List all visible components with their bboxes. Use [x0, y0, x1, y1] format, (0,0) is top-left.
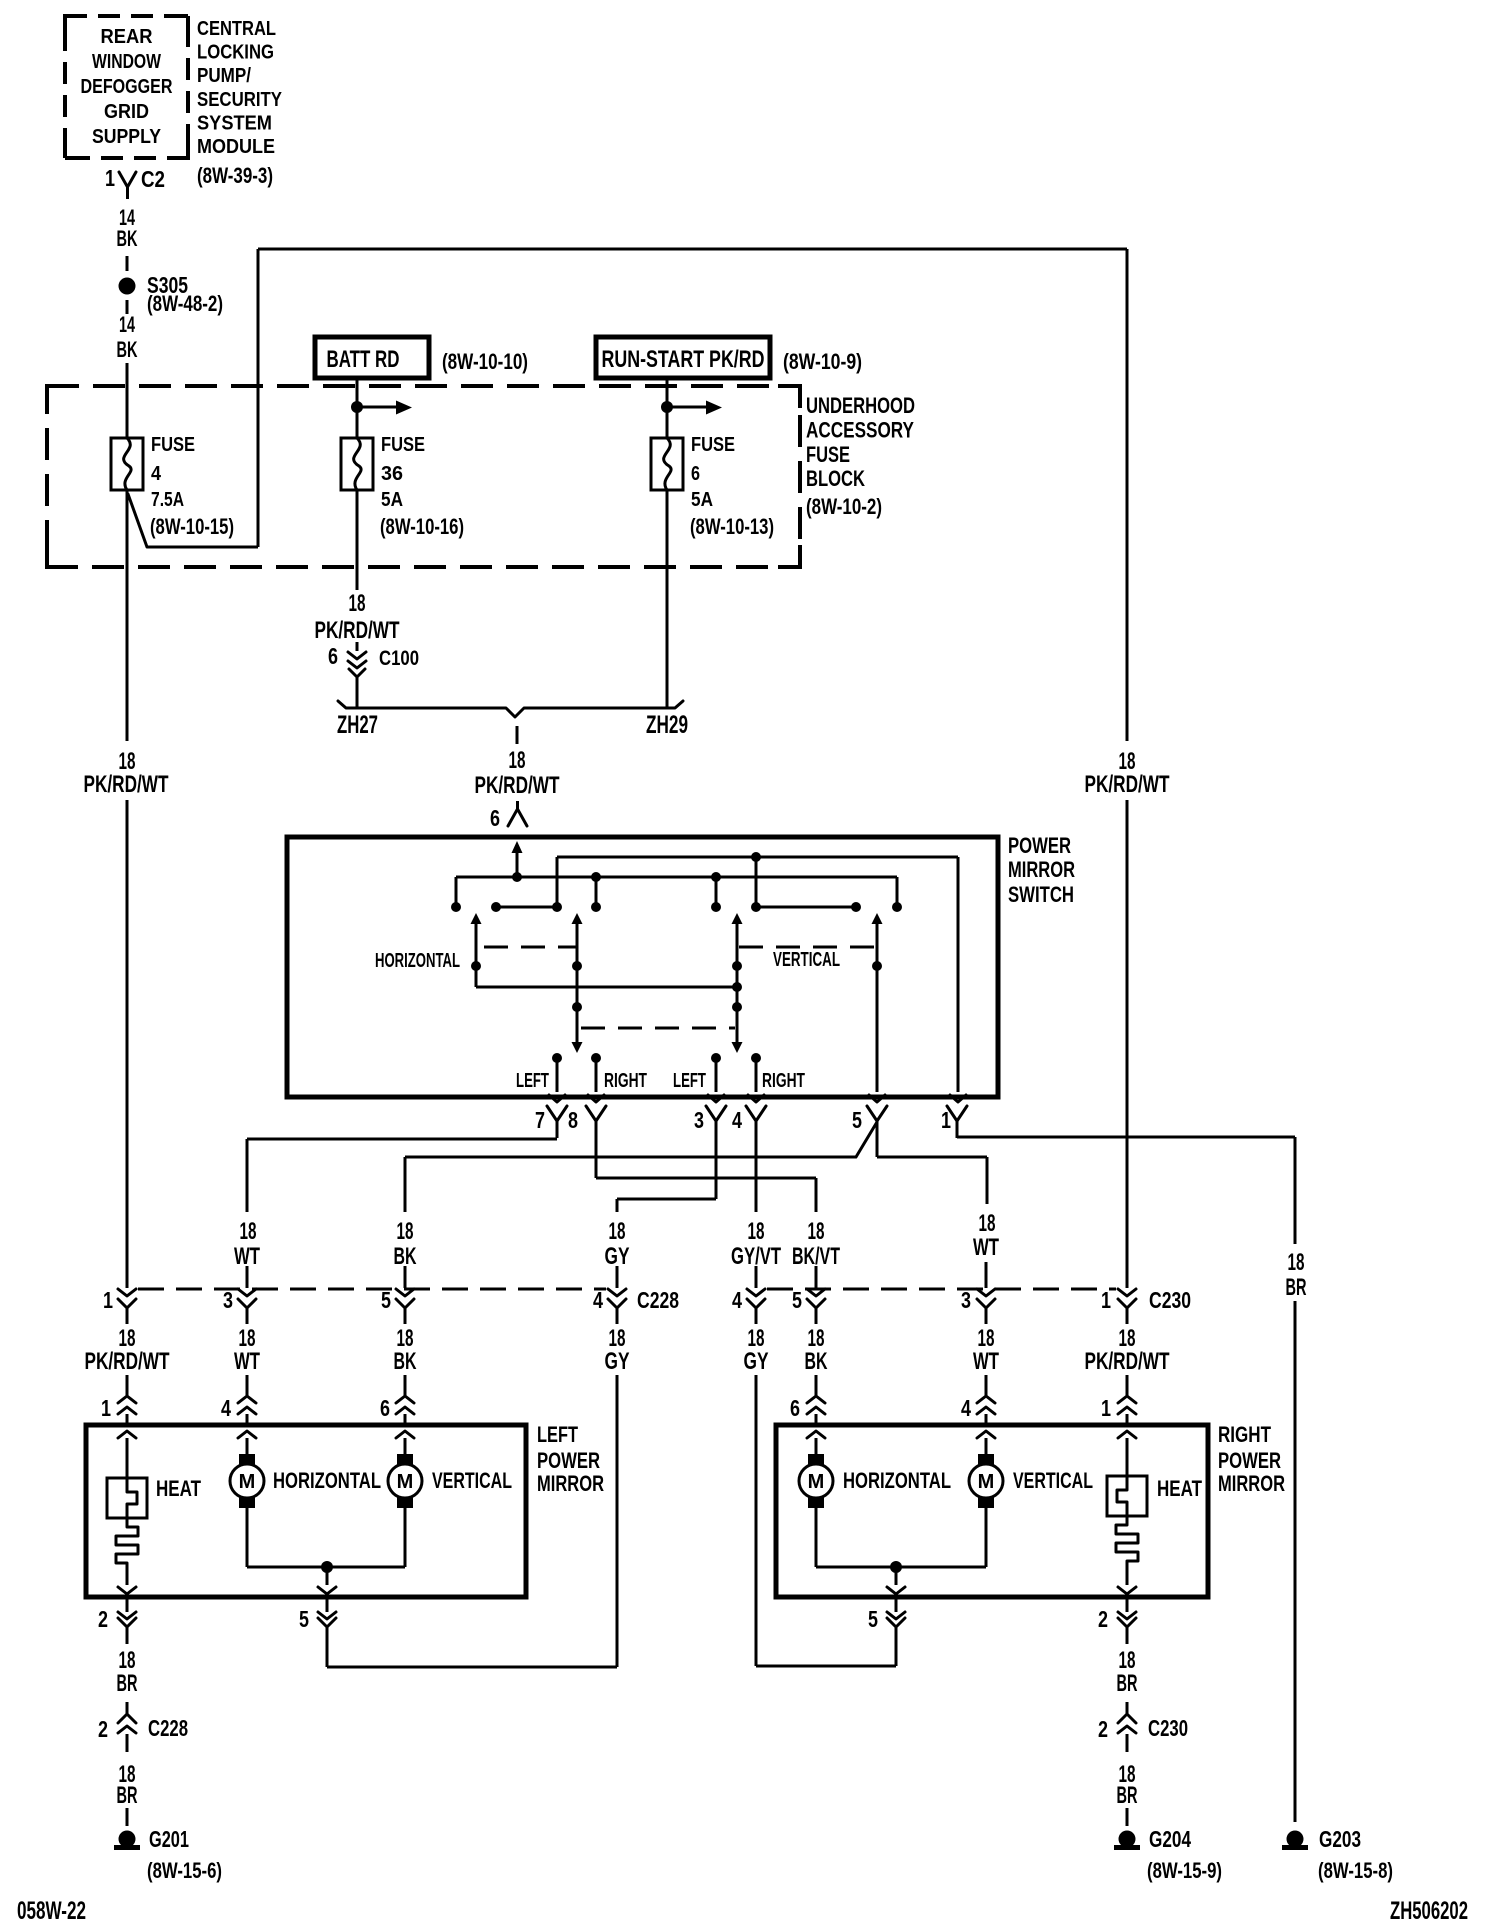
svg-text:PK/RD/WT: PK/RD/WT	[475, 772, 560, 799]
svg-text:5: 5	[852, 1107, 862, 1133]
svg-text:BK: BK	[117, 337, 138, 362]
svg-text:GY: GY	[605, 1243, 630, 1270]
svg-text:M: M	[808, 1471, 825, 1493]
svg-text:(8W-39-3): (8W-39-3)	[197, 163, 273, 188]
svg-text:5A: 5A	[381, 489, 403, 511]
svg-text:MIRROR: MIRROR	[1008, 857, 1075, 882]
svg-text:2: 2	[1098, 1606, 1108, 1632]
svg-text:FUSE: FUSE	[381, 434, 425, 456]
svg-text:18: 18	[748, 1218, 765, 1245]
svg-text:BK/VT: BK/VT	[792, 1243, 840, 1270]
svg-text:PK/RD/WT: PK/RD/WT	[1085, 1348, 1170, 1375]
svg-text:1: 1	[1101, 1395, 1111, 1421]
svg-text:SYSTEM: SYSTEM	[197, 112, 272, 134]
svg-text:GY/VT: GY/VT	[731, 1243, 781, 1270]
svg-text:18: 18	[609, 1218, 626, 1245]
svg-text:BK: BK	[805, 1348, 828, 1375]
svg-text:2: 2	[98, 1606, 108, 1632]
svg-text:4: 4	[961, 1395, 971, 1421]
svg-text:18: 18	[349, 590, 366, 617]
svg-text:(8W-10-13): (8W-10-13)	[690, 514, 774, 539]
svg-text:18: 18	[397, 1218, 414, 1245]
svg-text:ZH27: ZH27	[337, 711, 378, 739]
svg-text:6: 6	[790, 1395, 800, 1421]
svg-text:GY: GY	[605, 1348, 630, 1375]
svg-text:(8W-15-8): (8W-15-8)	[1318, 1858, 1393, 1883]
svg-text:WT: WT	[973, 1348, 999, 1375]
svg-text:1: 1	[103, 1287, 113, 1313]
svg-text:BR: BR	[117, 1782, 138, 1809]
svg-text:(8W-10-2): (8W-10-2)	[806, 494, 882, 519]
svg-text:BR: BR	[1117, 1670, 1138, 1697]
svg-text:BK: BK	[394, 1348, 417, 1375]
svg-text:WT: WT	[973, 1234, 999, 1261]
svg-text:CENTRAL: CENTRAL	[197, 18, 276, 40]
svg-text:18: 18	[808, 1218, 825, 1245]
svg-text:C228: C228	[148, 1715, 188, 1741]
svg-text:4: 4	[732, 1107, 742, 1133]
svg-text:(8W-10-10): (8W-10-10)	[442, 349, 528, 374]
svg-text:LOCKING: LOCKING	[197, 42, 274, 64]
svg-text:POWER: POWER	[1218, 1448, 1281, 1473]
svg-text:RIGHT: RIGHT	[1218, 1422, 1271, 1447]
svg-text:5: 5	[381, 1287, 391, 1313]
svg-text:36: 36	[381, 463, 403, 485]
svg-text:C230: C230	[1148, 1715, 1188, 1741]
svg-text:VERTICAL: VERTICAL	[432, 1468, 512, 1493]
svg-text:DEFOGGER: DEFOGGER	[81, 76, 173, 98]
svg-text:PK/RD/WT: PK/RD/WT	[84, 771, 169, 798]
svg-text:PK/RD/WT: PK/RD/WT	[85, 1348, 170, 1375]
svg-text:WT: WT	[234, 1243, 260, 1270]
svg-text:HORIZONTAL: HORIZONTAL	[273, 1468, 381, 1493]
svg-text:PK/RD/WT: PK/RD/WT	[1085, 771, 1170, 798]
svg-text:M: M	[397, 1471, 414, 1493]
svg-text:18: 18	[979, 1210, 996, 1237]
svg-text:G204: G204	[1149, 1826, 1191, 1852]
svg-text:C228: C228	[637, 1287, 679, 1313]
svg-text:MODULE: MODULE	[197, 136, 275, 158]
svg-text:2: 2	[98, 1716, 108, 1742]
svg-text:ACCESSORY: ACCESSORY	[806, 417, 914, 442]
svg-text:VERTICAL: VERTICAL	[773, 949, 840, 971]
svg-text:7: 7	[535, 1107, 545, 1133]
svg-text:RIGHT: RIGHT	[762, 1070, 805, 1092]
svg-text:GRID: GRID	[104, 101, 149, 123]
svg-text:BR: BR	[117, 1670, 138, 1697]
svg-text:MIRROR: MIRROR	[1218, 1471, 1285, 1496]
svg-text:6: 6	[380, 1395, 390, 1421]
svg-text:18: 18	[509, 747, 526, 774]
svg-text:5: 5	[299, 1606, 309, 1632]
svg-text:UNDERHOOD: UNDERHOOD	[806, 393, 915, 418]
svg-text:5: 5	[868, 1606, 878, 1632]
svg-text:5A: 5A	[691, 489, 713, 511]
svg-text:SECURITY: SECURITY	[197, 89, 283, 111]
svg-text:RUN-START PK/RD: RUN-START PK/RD	[602, 346, 765, 373]
svg-text:6: 6	[328, 643, 338, 669]
svg-text:1: 1	[941, 1107, 951, 1133]
svg-text:(8W-48-2): (8W-48-2)	[147, 291, 223, 316]
svg-text:SWITCH: SWITCH	[1008, 882, 1074, 907]
svg-text:FUSE: FUSE	[151, 434, 195, 456]
svg-text:(8W-15-9): (8W-15-9)	[1147, 1858, 1222, 1883]
svg-text:BLOCK: BLOCK	[806, 466, 865, 491]
svg-text:SUPPLY: SUPPLY	[92, 126, 162, 148]
svg-text:POWER: POWER	[1008, 833, 1071, 858]
svg-text:HEAT: HEAT	[156, 1476, 201, 1501]
svg-text:HEAT: HEAT	[1157, 1476, 1202, 1501]
svg-text:(8W-10-16): (8W-10-16)	[380, 514, 464, 539]
svg-text:BK: BK	[394, 1243, 417, 1270]
svg-text:5: 5	[792, 1287, 802, 1313]
svg-text:ZH506202: ZH506202	[1390, 1897, 1468, 1925]
svg-text:G201: G201	[149, 1826, 189, 1852]
svg-text:M: M	[978, 1471, 995, 1493]
svg-text:RIGHT: RIGHT	[604, 1070, 647, 1092]
svg-text:BR: BR	[1286, 1274, 1307, 1301]
svg-text:6: 6	[691, 463, 700, 485]
svg-text:1: 1	[1101, 1287, 1111, 1313]
svg-text:HORIZONTAL: HORIZONTAL	[843, 1468, 951, 1493]
svg-text:3: 3	[694, 1107, 704, 1133]
svg-text:ZH29: ZH29	[646, 711, 688, 739]
svg-text:VERTICAL: VERTICAL	[1013, 1468, 1093, 1493]
svg-text:LEFT: LEFT	[516, 1070, 549, 1092]
svg-text:HORIZONTAL: HORIZONTAL	[375, 950, 460, 972]
svg-text:4: 4	[151, 463, 162, 485]
svg-text:LEFT: LEFT	[673, 1070, 706, 1092]
svg-text:4: 4	[221, 1395, 231, 1421]
svg-text:(8W-15-6): (8W-15-6)	[147, 1858, 222, 1883]
svg-text:7.5A: 7.5A	[151, 489, 184, 511]
svg-text:(8W-10-15): (8W-10-15)	[150, 514, 234, 539]
svg-text:3: 3	[961, 1287, 971, 1313]
svg-text:4: 4	[593, 1287, 603, 1313]
svg-text:REAR: REAR	[101, 26, 154, 48]
svg-text:3: 3	[223, 1287, 233, 1313]
svg-text:14: 14	[119, 312, 135, 337]
svg-text:LEFT: LEFT	[537, 1422, 578, 1447]
svg-text:8: 8	[568, 1107, 578, 1133]
svg-text:FUSE: FUSE	[806, 442, 850, 467]
svg-text:(8W-10-9): (8W-10-9)	[783, 349, 862, 374]
svg-text:G203: G203	[1319, 1826, 1361, 1852]
svg-text:BK: BK	[117, 226, 138, 251]
svg-text:1: 1	[101, 1395, 111, 1421]
svg-text:M: M	[239, 1471, 256, 1493]
svg-text:FUSE: FUSE	[691, 434, 735, 456]
svg-text:C100: C100	[379, 647, 419, 670]
svg-text:C2: C2	[141, 166, 165, 192]
svg-text:POWER: POWER	[537, 1448, 600, 1473]
svg-text:2: 2	[1098, 1716, 1108, 1742]
svg-text:4: 4	[732, 1287, 742, 1313]
svg-text:PK/RD/WT: PK/RD/WT	[315, 617, 400, 644]
svg-text:18: 18	[240, 1218, 257, 1245]
svg-text:PUMP/: PUMP/	[197, 65, 251, 87]
svg-text:BR: BR	[1117, 1782, 1138, 1809]
svg-text:BATT RD: BATT RD	[327, 346, 400, 373]
svg-text:WINDOW: WINDOW	[92, 51, 161, 73]
svg-text:GY: GY	[744, 1348, 769, 1375]
svg-text:WT: WT	[234, 1348, 260, 1375]
svg-text:C230: C230	[1149, 1287, 1191, 1313]
svg-text:6: 6	[490, 805, 500, 831]
svg-text:1: 1	[105, 165, 115, 191]
svg-text:18: 18	[1288, 1249, 1305, 1276]
svg-text:058W-22: 058W-22	[17, 1897, 86, 1925]
svg-text:MIRROR: MIRROR	[537, 1471, 604, 1496]
